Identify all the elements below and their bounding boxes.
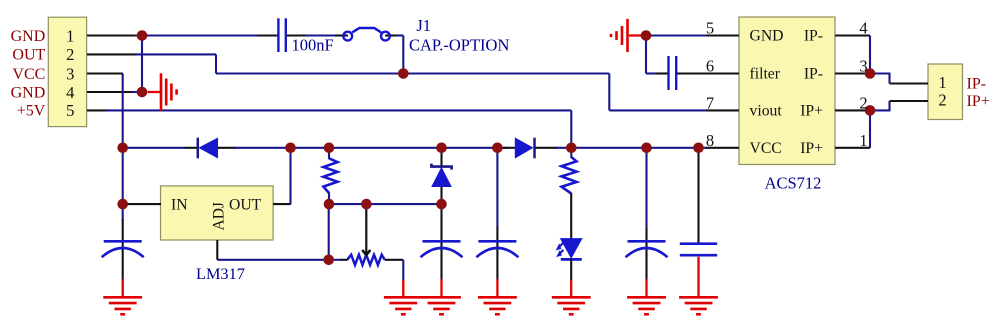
svg-text:GND: GND [11, 84, 46, 101]
svg-text:ACS712: ACS712 [765, 174, 822, 193]
svg-text:IP-: IP- [967, 76, 987, 93]
svg-text:6: 6 [706, 57, 714, 76]
svg-text:filter: filter [750, 66, 781, 83]
svg-text:2: 2 [859, 93, 867, 112]
svg-text:ADJ: ADJ [211, 202, 228, 230]
svg-text:IP+: IP+ [800, 102, 823, 119]
svg-text:2: 2 [66, 45, 74, 64]
svg-text:GND: GND [750, 28, 784, 45]
svg-text:+5V: +5V [17, 103, 46, 120]
svg-text:viout: viout [750, 102, 783, 119]
svg-text:7: 7 [706, 93, 714, 112]
svg-text:IP-: IP- [804, 28, 823, 45]
svg-text:J1: J1 [416, 16, 431, 35]
svg-text:IP-: IP- [804, 66, 823, 83]
svg-text:5: 5 [66, 101, 74, 120]
svg-text:CAP.-OPTION: CAP.-OPTION [409, 36, 509, 55]
svg-text:8: 8 [706, 131, 714, 150]
svg-text:3: 3 [66, 64, 74, 83]
svg-text:3: 3 [859, 57, 867, 76]
svg-text:GND: GND [11, 28, 46, 45]
svg-text:1: 1 [66, 26, 74, 45]
svg-text:VCC: VCC [12, 66, 45, 83]
svg-text:IP+: IP+ [800, 140, 823, 157]
svg-text:1: 1 [938, 73, 946, 92]
svg-text:LM317: LM317 [196, 264, 245, 283]
svg-text:OUT: OUT [229, 196, 262, 213]
svg-text:OUT: OUT [12, 47, 45, 64]
svg-text:4: 4 [859, 19, 867, 38]
svg-text:5: 5 [706, 19, 714, 38]
svg-text:VCC: VCC [750, 140, 782, 157]
svg-text:2: 2 [938, 91, 946, 110]
svg-text:IP+: IP+ [967, 93, 990, 110]
svg-text:1: 1 [859, 131, 867, 150]
svg-text:IN: IN [171, 196, 188, 213]
svg-text:4: 4 [66, 83, 74, 102]
svg-text:100nF: 100nF [292, 36, 334, 55]
